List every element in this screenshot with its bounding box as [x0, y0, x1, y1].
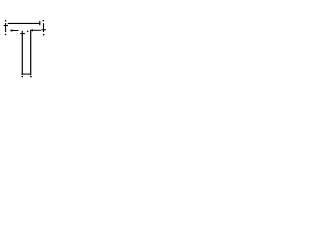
left end tick dot top	[5, 20, 7, 22]
web line B	[30, 30, 32, 75]
left crossbar	[4, 25, 8, 27]
A top crossbar	[20, 33, 25, 35]
right dot top	[43, 20, 45, 22]
bottom-right dot	[30, 76, 32, 78]
bottom-left dot	[22, 76, 24, 78]
right crossbar	[42, 29, 46, 31]
top flange bar	[8, 22, 40, 24]
right dot bottom	[43, 34, 45, 36]
bar right end tick	[39, 21, 41, 25]
web line A	[21, 31, 23, 74]
bottom line left arrowhead	[21, 73, 23, 75]
right vertical extension line	[43, 23, 45, 32]
bottom connecting line	[22, 73, 30, 75]
right mid arrow shaft	[33, 29, 41, 31]
left mid arrow shaft	[11, 30, 18, 32]
left vertical extension line	[5, 23, 7, 32]
left mid arrow head	[10, 29, 13, 31]
right mid arrow head	[30, 29, 33, 31]
middle dot near B top	[27, 30, 29, 32]
left dot bottom	[5, 34, 7, 36]
